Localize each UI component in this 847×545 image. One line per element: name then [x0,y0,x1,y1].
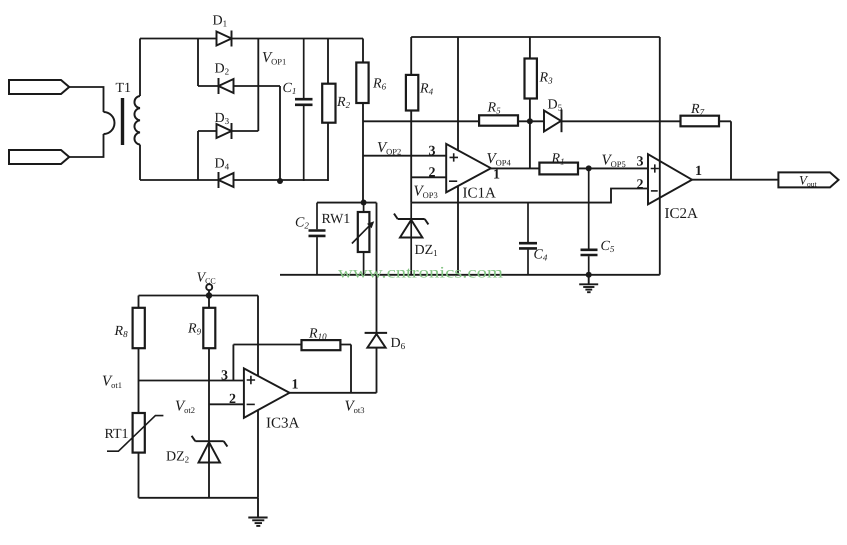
wire D6 to IC3A output corner [376,348,378,393]
ground symbol bottom section [248,498,267,526]
wire R10 row [233,344,351,346]
svg-text:C4: C4 [534,248,548,263]
svg-text:R8: R8 [114,324,129,339]
svg-text:R9: R9 [187,322,202,337]
resistor R1 [539,163,578,175]
svg-text:Vot1: Vot1 [102,374,122,391]
resistor R8 [133,308,145,348]
wire upper box top rail [411,36,660,38]
wire D2 anode branch [197,39,199,87]
svg-text:VOP4: VOP4 [487,151,512,168]
svg-text:IC2A: IC2A [665,206,699,222]
ground symbol under C5 [579,275,598,292]
wire IC2A output [692,179,778,181]
op-amp U1 IC1A [446,144,491,193]
junction Vcc rail [206,292,212,298]
capacitor C2 [309,203,326,275]
op-amp IC2A plus input mark [651,164,659,172]
junction ground rail at C5 [586,272,592,278]
potentiometer RW1 [358,203,370,275]
diode D3 [217,123,232,139]
wire R8 RT1 column [138,296,140,498]
input terminal J2 [9,150,69,164]
svg-text:D1: D1 [213,14,228,29]
thermistor RT1 [107,413,163,453]
svg-text:1: 1 [493,168,500,183]
svg-text:R6: R6 [372,77,387,92]
wire R7 feedback column [730,121,732,179]
svg-text:1: 1 [695,164,702,179]
svg-text:www.cntronics.com: www.cntronics.com [338,265,504,282]
op-amp IC3A minus input mark [247,403,255,405]
capacitor C4 [519,203,537,275]
op-amp IC3A plus input mark [247,376,255,384]
potentiometer RW1 wiper arrow [352,221,374,243]
svg-text:R2: R2 [336,95,351,110]
svg-text:3: 3 [221,369,228,384]
junction D2 output on negative rail [277,178,283,184]
wire feedback rail VOP3 to IC2A pin 2 [411,189,648,203]
wire D3 output up to rail [257,39,259,132]
junction VOP5 node [586,165,592,171]
wire D3 row [198,130,258,132]
wire T1 secondary bottom to negative rail [139,145,141,180]
wire R4 column [410,37,412,203]
op-amp IC1A minus input mark [449,180,457,182]
svg-text:C5: C5 [601,239,615,254]
resistor R9 [203,308,215,348]
svg-text:2: 2 [229,392,236,407]
resistor R10 [302,340,341,350]
svg-text:R4: R4 [419,82,434,97]
svg-text:R7: R7 [690,102,705,117]
wire Vcc stem [208,290,210,296]
wire node VOP2 to IC1A pin 3 [363,155,446,157]
resistor R4 [406,75,418,111]
wire IC3A supply column [257,296,259,498]
resistor R7 [681,116,720,127]
wire IC2A supply column [659,37,661,275]
op-amp U2 IC2A [648,154,692,204]
wire feed rail through R5 D5 R7 [363,120,731,122]
svg-text:3: 3 [429,144,436,159]
svg-text:R1: R1 [551,152,565,167]
svg-text:2: 2 [637,178,644,193]
wire R9 DZ2 column [208,296,210,498]
svg-text:2: 2 [429,166,436,181]
svg-text:D2: D2 [215,62,230,77]
input terminal J1 [9,80,69,94]
diode D2 [219,78,234,94]
svg-text:Vot3: Vot3 [345,399,365,416]
svg-text:RW1: RW1 [322,212,351,227]
op-amp IC2A minus input mark [651,190,658,192]
resistor R2 [322,84,335,123]
wire R3 column [529,37,531,168]
op-amp IC1A plus input mark [450,153,459,161]
transformer T1 secondary winding [134,96,140,145]
junction RW1 top node [361,200,367,206]
wire node Vot2 to IC3A pin 2 [209,403,244,405]
wire IC1A output VOP4 to IC2A pin 3 [491,167,648,169]
zener diode DZ1 [394,203,428,275]
svg-text:D5: D5 [548,98,563,113]
junction R3 R5 D5 node [527,118,533,124]
svg-text:DZ1: DZ1 [415,243,438,258]
svg-text:1: 1 [292,378,299,393]
svg-text:VCC: VCC [197,271,216,286]
wire D2 output down to negative rail [279,86,281,181]
svg-text:VOP2: VOP2 [377,140,401,157]
wire positive top rail [140,38,363,40]
wire R6 column [362,39,364,203]
svg-text:Vot2: Vot2 [175,399,195,416]
op-amp U3 IC3A [244,368,290,417]
svg-text:VOP1: VOP1 [262,50,286,67]
diode D6 [365,333,388,348]
wire D2 row [198,85,280,87]
svg-text:C2: C2 [295,216,309,231]
output terminal Vout [778,172,838,187]
capacitor C5 [581,168,598,275]
transformer T1 primary winding [104,112,115,134]
power terminal Vcc [206,284,212,290]
wire D6 column upper [376,203,378,333]
wire IC1A supply column [457,37,459,275]
resistor R3 [525,59,537,99]
diode D1 [217,31,232,47]
svg-text:T1: T1 [116,81,132,96]
svg-text:VOP5: VOP5 [602,153,626,170]
capacitor C1 [295,39,313,182]
wire R2 column [327,39,329,182]
wire node Vot1 to IC3A pin 3 [139,380,244,382]
wire IC1A pin 2 [411,176,446,178]
wire RW1 top row [317,202,377,204]
wire from T1 primary to J2 [69,134,103,157]
wire T1 secondary top to rectifier rail [139,39,141,97]
svg-text:C1: C1 [283,81,297,96]
wire bottom ground rail [139,497,259,499]
wire R10 right leg to output [350,345,352,393]
svg-text:IC3A: IC3A [266,416,300,432]
svg-text:R5: R5 [487,101,502,116]
svg-text:D4: D4 [215,157,230,172]
svg-text:RT1: RT1 [105,427,129,442]
diode D4 [219,172,234,188]
diode D5 [544,110,562,133]
svg-text:VOP3: VOP3 [414,184,438,201]
wire from J1 to T1 primary [69,87,103,112]
resistor R5 [479,115,518,125]
svg-text:IC1A: IC1A [463,186,497,202]
zener diode DZ2 [192,436,228,463]
wire main ground rail [280,274,660,276]
resistor R6 [356,63,368,104]
svg-text:R3: R3 [539,71,554,86]
wire Vcc top rail [139,295,259,297]
wire negative bottom rail [140,179,328,181]
transformer T1 core [121,98,124,145]
wire R10 left leg to pin 3 wire [232,345,234,381]
svg-text:D6: D6 [391,336,406,351]
svg-text:D3: D3 [215,111,230,126]
wire D3 cathode down [197,131,199,180]
wire IC3A output Vot3 [290,392,377,394]
svg-text:R10: R10 [308,327,327,342]
svg-text:3: 3 [637,155,644,170]
svg-text:DZ2: DZ2 [166,450,189,465]
